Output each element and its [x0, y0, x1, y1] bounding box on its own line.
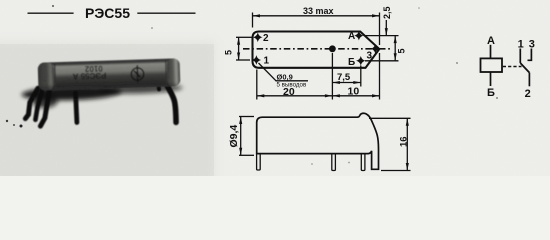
svg-text:2: 2 [263, 33, 269, 44]
svg-text:5: 5 [397, 48, 407, 53]
svg-text:Б: Б [487, 87, 495, 99]
svg-text:Б: Б [348, 57, 355, 68]
svg-text:33 max: 33 max [303, 6, 334, 16]
svg-text:A: A [348, 31, 355, 42]
svg-text:Ø0,9: Ø0,9 [277, 73, 293, 82]
svg-text:РЭС55: РЭС55 [85, 5, 130, 21]
svg-text:5: 5 [224, 50, 234, 55]
svg-text:10: 10 [348, 86, 360, 98]
svg-text:1: 1 [264, 56, 270, 67]
svg-text:2: 2 [525, 88, 531, 100]
svg-text:1: 1 [518, 38, 524, 50]
svg-text:2,5: 2,5 [382, 6, 392, 19]
svg-text:5 выводов: 5 выводов [277, 82, 307, 89]
svg-text:РЭС55 А: РЭС55 А [72, 71, 106, 81]
svg-text:Ø9,4: Ø9,4 [228, 125, 240, 148]
svg-text:16: 16 [399, 136, 410, 147]
svg-text:A: A [487, 35, 495, 47]
svg-text:3: 3 [367, 51, 373, 62]
svg-text:3: 3 [529, 38, 535, 50]
svg-text:7,5: 7,5 [337, 72, 351, 83]
